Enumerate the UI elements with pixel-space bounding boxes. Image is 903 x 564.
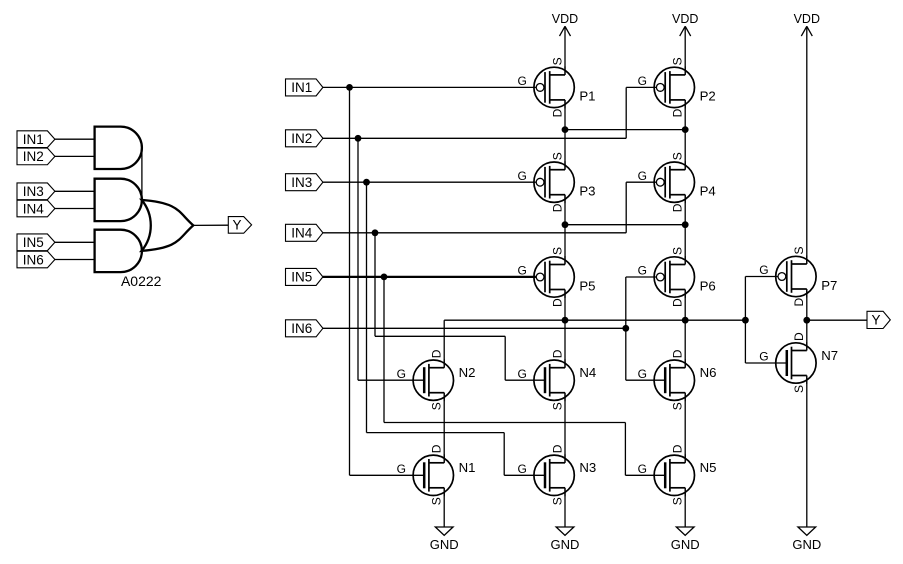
svg-text:P2: P2 [700, 89, 716, 104]
svg-text:IN5: IN5 [291, 270, 312, 285]
svg-text:N3: N3 [579, 460, 596, 475]
svg-text:S: S [671, 402, 685, 410]
transistor N7 [759, 332, 838, 393]
wire AND1 output down to OR input [141, 148, 143, 200]
wire IN3 net [323, 182, 545, 475]
svg-text:D: D [671, 444, 685, 453]
net label IN4 (logic diagram input) [17, 200, 55, 217]
junction node-P5.D [562, 317, 569, 324]
svg-text:P5: P5 [579, 278, 595, 293]
svg-text:S: S [430, 497, 444, 505]
wire output Y [807, 319, 867, 321]
wire P7/N7 gate net [745, 277, 786, 364]
transistor N6 [638, 349, 717, 410]
junction IN6 [622, 325, 629, 332]
svg-text:S: S [550, 247, 564, 255]
svg-text:D: D [550, 444, 564, 453]
svg-text:S: S [550, 497, 564, 505]
power symbol GND #3 [671, 527, 700, 552]
net label IN4 (schematic) [286, 224, 323, 241]
wire internal node (AOI output) [444, 319, 745, 321]
junction IN1 [346, 84, 353, 91]
svg-text:G: G [397, 462, 406, 476]
svg-text:IN1: IN1 [23, 132, 44, 147]
svg-text:IN3: IN3 [291, 175, 312, 190]
svg-text:G: G [517, 462, 526, 476]
svg-text:IN4: IN4 [23, 201, 45, 216]
svg-text:GND: GND [430, 537, 459, 552]
net label IN6 (schematic) [286, 320, 323, 337]
junction node-P6.D [682, 317, 689, 324]
wire VDD3 / P7 / N7 / GND4 column [806, 26, 808, 527]
svg-text:D: D [430, 349, 444, 358]
svg-text:G: G [638, 169, 647, 183]
wire IN6 to AND gate input [55, 259, 95, 261]
wire node to N2 / N1 / GND1 column [443, 320, 445, 527]
wire VDD1 / P1 / P3 / P5 / N4 / N3 / GND2 column [564, 26, 566, 527]
net label IN2 (schematic) [286, 130, 323, 147]
svg-text:IN6: IN6 [291, 321, 312, 336]
junction P2.D [682, 126, 689, 133]
svg-text:G: G [517, 169, 526, 183]
net label IN1 (logic diagram input) [17, 131, 55, 148]
transistor P6 [638, 247, 716, 307]
svg-text:Y: Y [232, 218, 241, 233]
svg-text:D: D [430, 444, 444, 453]
svg-text:S: S [671, 152, 685, 160]
transistor P7 [759, 246, 837, 306]
junction P4.D [682, 221, 689, 228]
svg-text:D: D [792, 332, 806, 341]
svg-text:G: G [517, 367, 526, 381]
net label IN5 (logic diagram input) [17, 234, 55, 251]
svg-text:VDD: VDD [794, 12, 820, 26]
svg-text:S: S [550, 152, 564, 160]
wire IN2 net [323, 87, 656, 380]
power symbol VDD #1 [552, 12, 578, 36]
transistor P5 [517, 247, 595, 307]
svg-text:A0222: A0222 [121, 273, 162, 289]
svg-text:P7: P7 [821, 278, 837, 293]
transistor N3 [517, 444, 596, 505]
wire IN4 to AND gate input [55, 208, 95, 210]
wire IN4 net [323, 182, 656, 380]
junction node-P7/N7 gates [742, 317, 749, 324]
transistor P2 [638, 57, 716, 117]
svg-text:Y: Y [872, 313, 881, 328]
net label IN3 (logic diagram input) [17, 183, 55, 200]
power symbol GND #2 [551, 527, 580, 552]
transistor N1 [397, 444, 476, 505]
svg-text:S: S [550, 57, 564, 65]
svg-text:D: D [550, 108, 564, 117]
power symbol VDD #2 [672, 12, 698, 36]
svg-text:D: D [671, 108, 685, 117]
junction IN4 [372, 229, 379, 236]
svg-text:G: G [638, 74, 647, 88]
svg-text:N6: N6 [700, 365, 717, 380]
net label IN1 (schematic) [286, 79, 323, 96]
wire VDD2 / P2 / P4 / P6 / N6 / N5 / GND3 column [684, 26, 686, 527]
wire IN1 to AND gate input [55, 138, 95, 140]
svg-text:N4: N4 [579, 365, 596, 380]
svg-text:G: G [397, 367, 406, 381]
svg-text:P6: P6 [700, 278, 716, 293]
svg-text:IN6: IN6 [23, 252, 44, 267]
svg-text:S: S [792, 246, 806, 254]
svg-text:GND: GND [792, 537, 821, 552]
junction IN3 [363, 179, 370, 186]
wire IN5 to AND gate input [55, 241, 95, 243]
svg-text:D: D [671, 349, 685, 358]
transistor N2 [397, 349, 476, 410]
svg-text:VDD: VDD [552, 12, 578, 26]
svg-text:IN2: IN2 [291, 131, 312, 146]
svg-text:G: G [759, 263, 768, 277]
svg-text:D: D [671, 298, 685, 307]
svg-text:G: G [517, 74, 526, 88]
svg-text:D: D [550, 349, 564, 358]
svg-text:IN4: IN4 [291, 226, 313, 241]
svg-text:D: D [792, 298, 806, 307]
wire P1.D-P2.D to P3.S/P4.S link [565, 129, 685, 131]
power symbol GND #1 [430, 527, 459, 552]
wire IN3 to AND gate input [55, 190, 95, 192]
svg-text:S: S [671, 57, 685, 65]
svg-text:G: G [517, 264, 526, 278]
svg-text:D: D [671, 203, 685, 212]
svg-text:IN2: IN2 [23, 149, 44, 164]
junction P3.D [562, 221, 569, 228]
svg-text:S: S [671, 247, 685, 255]
power symbol GND #4 [792, 527, 821, 552]
svg-text:D: D [550, 298, 564, 307]
transistor P4 [638, 152, 716, 212]
svg-text:GND: GND [551, 537, 580, 552]
svg-text:N2: N2 [459, 365, 476, 380]
wire IN6 net [323, 277, 665, 380]
svg-text:G: G [638, 367, 647, 381]
svg-text:G: G [759, 350, 768, 364]
wire IN5 net (bold segment) [323, 277, 665, 475]
svg-text:P4: P4 [700, 184, 716, 199]
junction P1.D [562, 126, 569, 133]
svg-text:G: G [638, 264, 647, 278]
transistor P1 [517, 57, 595, 117]
junction output Y [803, 317, 810, 324]
net label Y (schematic output) [867, 311, 890, 328]
svg-text:N5: N5 [700, 460, 717, 475]
wire IN2 to AND gate input [55, 155, 95, 157]
transistor N5 [638, 444, 717, 505]
net label Y (logic diagram output) [228, 217, 251, 234]
wire OR output to Y [193, 224, 228, 226]
AND gate U3 [95, 230, 142, 272]
wire P3.D-P4.D to P5.S/P6.S link [565, 224, 685, 226]
svg-text:G: G [638, 462, 647, 476]
svg-text:N7: N7 [821, 348, 838, 363]
svg-text:P3: P3 [579, 184, 595, 199]
junction IN5 [381, 274, 388, 281]
svg-text:S: S [671, 497, 685, 505]
AND gate U2 [95, 179, 142, 221]
svg-text:N1: N1 [459, 460, 476, 475]
net label IN5 (schematic) [286, 268, 323, 285]
svg-text:VDD: VDD [672, 12, 698, 26]
power symbol VDD #3 [794, 12, 820, 36]
svg-text:IN3: IN3 [23, 184, 44, 199]
svg-text:S: S [792, 385, 806, 393]
net label IN6 (logic diagram input) [17, 251, 55, 268]
svg-text:S: S [550, 402, 564, 410]
svg-text:P1: P1 [579, 89, 595, 104]
junction IN2 [355, 135, 362, 142]
AND gate U1 [95, 127, 142, 169]
net label IN3 (schematic) [286, 174, 323, 191]
svg-text:D: D [550, 203, 564, 212]
wire IN1 net [323, 87, 536, 475]
svg-text:S: S [430, 402, 444, 410]
transistor N4 [517, 349, 596, 410]
OR gate U4 [142, 200, 194, 251]
svg-text:IN5: IN5 [23, 235, 44, 250]
transistor P3 [517, 152, 595, 212]
svg-text:IN1: IN1 [291, 80, 312, 95]
net label IN2 (logic diagram input) [17, 148, 55, 165]
svg-text:GND: GND [671, 537, 700, 552]
